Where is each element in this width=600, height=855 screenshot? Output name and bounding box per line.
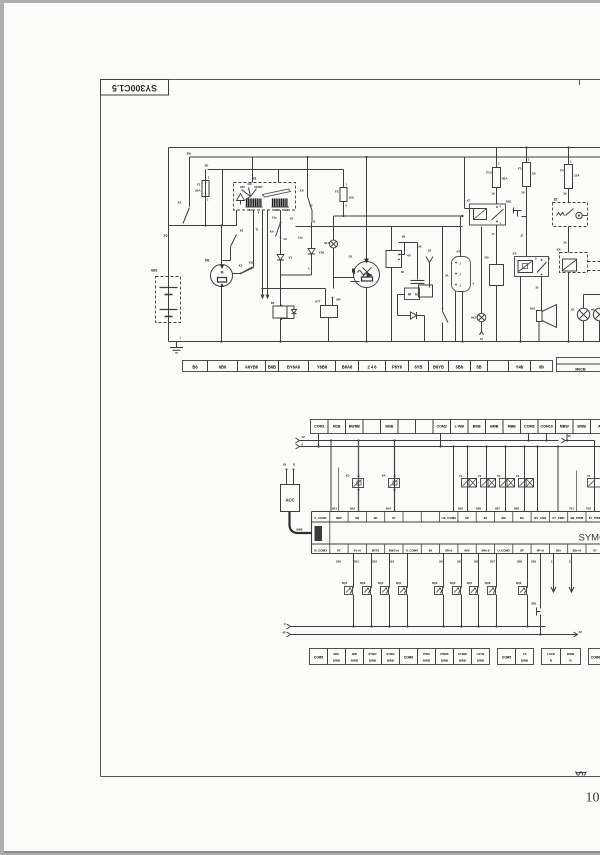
lamp HL2 with ground arrow <box>471 227 486 342</box>
controller connector cell <box>315 522 330 544</box>
ignition switch S1 dashed box <box>234 177 296 211</box>
svg-text:606: 606 <box>476 506 481 510</box>
resistor R1 with bypass diode <box>271 301 297 342</box>
svg-text:YX: YX <box>522 652 526 656</box>
svg-text:BY6A6: BY6A6 <box>287 365 301 370</box>
svg-text:20A: 20A <box>195 189 201 193</box>
wire 3b <box>563 227 568 253</box>
svg-text:601: 601 <box>332 506 337 510</box>
svg-text:604: 604 <box>386 506 391 510</box>
svg-text:T1: T1 <box>255 228 259 232</box>
pressure switch SQ5 <box>432 554 445 628</box>
bus 42 bottom <box>282 630 582 637</box>
drawing frame border <box>101 80 600 777</box>
svg-text:9b: 9b <box>539 365 544 370</box>
svg-text:PW6: PW6 <box>423 652 430 656</box>
title block SY300C1.5 (rotated 180) <box>101 80 169 96</box>
svg-text:6S: 6S <box>484 516 488 520</box>
S1 pin labels <box>249 208 289 215</box>
svg-text:BWB: BWB <box>441 659 449 663</box>
regulator box 63 <box>386 227 418 342</box>
wire V1-V1B junction <box>281 274 312 276</box>
svg-text:BW: BW <box>352 652 357 656</box>
svg-text:SB1: SB1 <box>506 200 512 204</box>
bus 0 lower <box>296 443 600 450</box>
svg-text:6B_PWM: 6B_PWM <box>570 516 583 520</box>
svg-text:OFF: OFF <box>240 185 246 189</box>
svg-text:B6A6: B6A6 <box>342 365 353 370</box>
svg-text:F_COM1: F_COM1 <box>315 516 328 520</box>
svg-text:29: 29 <box>283 463 287 467</box>
alternator D1 <box>349 157 380 342</box>
svg-text:6YBB: 6YBB <box>386 652 395 656</box>
svg-text:42: 42 <box>282 631 286 635</box>
wire left rail <box>168 148 170 342</box>
svg-text:ON: ON <box>248 182 252 186</box>
svg-text:S2: S2 <box>554 198 558 202</box>
pressure switch SQ4 <box>396 554 409 628</box>
svg-text:F3: F3 <box>518 167 522 171</box>
svg-text:F13: F13 <box>486 171 492 175</box>
svg-text:SQ6: SQ6 <box>450 581 456 585</box>
fuse F4 15A <box>560 148 580 203</box>
svg-text:Y3: Y3 <box>497 474 501 478</box>
svg-text:BWB: BWB <box>423 659 431 663</box>
svg-text:608: 608 <box>514 506 519 510</box>
svg-text:6Br+9: 6Br+9 <box>573 549 582 553</box>
svg-text:SQ2: SQ2 <box>360 581 366 585</box>
svg-text:2 4 6: 2 4 6 <box>367 365 377 370</box>
svg-text:6R7S: 6R7S <box>372 549 380 553</box>
svg-text:3b: 3b <box>563 241 566 245</box>
diode V2 <box>398 312 425 342</box>
controller box SYMC <box>312 512 600 554</box>
svg-text:B: B <box>293 463 295 467</box>
arrow terminal 11 <box>551 554 556 593</box>
wire 22 drop <box>222 170 224 226</box>
svg-text:701: 701 <box>569 506 574 510</box>
pressure switch SQ3 <box>378 554 391 628</box>
wire S1 top feed <box>253 157 279 183</box>
terminal strip lower-top <box>311 420 600 434</box>
controller bottom row labels <box>314 549 597 553</box>
svg-text:6YB: 6YB <box>415 365 423 370</box>
svg-text:6W+9: 6W+9 <box>481 549 489 553</box>
svg-text:COM10: COM10 <box>541 425 553 429</box>
wire K line <box>262 288 326 290</box>
svg-text:K7T: K7T <box>315 300 321 304</box>
svg-text:K3: K3 <box>346 474 350 478</box>
svg-text:SQ9: SQ9 <box>516 581 522 585</box>
svg-text:GB1: GB1 <box>151 269 158 273</box>
svg-text:K5: K5 <box>513 252 517 256</box>
svg-text:F4: F4 <box>560 169 564 173</box>
svg-text:SQ7: SQ7 <box>467 581 473 585</box>
pressure switch SQ2 <box>360 554 373 628</box>
svg-text:6WS+9: 6WS+9 <box>389 549 399 553</box>
terminal strip wide cell <box>557 358 600 372</box>
svg-text:COM1: COM1 <box>314 425 324 429</box>
svg-text:Y2: Y2 <box>478 474 482 478</box>
svg-text:BWB: BWB <box>351 659 359 663</box>
wire column 453 <box>452 445 454 511</box>
svg-text:K6: K6 <box>557 248 561 252</box>
fuse F1 20A <box>195 170 210 227</box>
ground symbol <box>170 336 183 353</box>
wire bus B 2M <box>187 152 600 159</box>
svg-text:5B: 5B <box>476 365 481 370</box>
pressure switch SQ1 <box>342 554 355 628</box>
svg-text:F1: F1 <box>197 183 201 187</box>
svg-text:M6CB: M6CB <box>575 367 586 371</box>
svg-text:B_COM3: B_COM3 <box>314 549 327 553</box>
svg-text:6B6: 6B6 <box>219 365 227 370</box>
svg-text:Y5: Y5 <box>587 474 591 478</box>
wire bus A (top) <box>169 146 600 148</box>
svg-text:COM5: COM5 <box>502 656 511 660</box>
connector K7 (round) <box>445 216 474 342</box>
svg-text:6R+9: 6R+9 <box>445 549 453 553</box>
switch K2 K1B <box>233 261 255 275</box>
pressure switch SQ9 <box>516 554 529 628</box>
svg-text:K9: K9 <box>270 230 274 234</box>
svg-text:HA1: HA1 <box>530 307 536 311</box>
relay K5 <box>513 252 551 277</box>
svg-text:26: 26 <box>522 191 525 195</box>
svg-text:V1B: V1B <box>319 251 326 255</box>
svg-text:COM6: COM6 <box>591 656 600 660</box>
lamp H2 <box>591 308 600 342</box>
svg-text:5d: 5d <box>284 237 287 241</box>
svg-text:31: 31 <box>521 234 524 238</box>
svg-text:START: START <box>254 185 263 189</box>
pressure switch SQ8 <box>485 554 498 628</box>
svg-text:6Y: 6Y <box>392 516 396 520</box>
svg-text:COM6: COM6 <box>404 656 413 660</box>
svg-text:L-WB: L-WB <box>455 425 465 429</box>
terminal strip lower-bottom seg D <box>589 649 600 665</box>
svg-text:SQ3: SQ3 <box>378 581 384 585</box>
svg-text:L6YB: L6YB <box>547 652 556 656</box>
svg-text:6_COM4: 6_COM4 <box>406 549 418 553</box>
svg-text:HL2: HL2 <box>471 316 477 320</box>
svg-text:5Bb: 5Bb <box>456 365 464 370</box>
svg-text:BRB: BRB <box>473 425 481 429</box>
svg-text:BV_CM1: BV_CM1 <box>534 516 547 520</box>
svg-text:32: 32 <box>536 286 539 290</box>
controller top row labels <box>315 516 600 520</box>
svg-text:702: 702 <box>586 506 591 510</box>
svg-text:BWB: BWB <box>369 659 377 663</box>
svg-text:6G: 6G <box>520 516 525 520</box>
harness thick wire <box>290 512 312 534</box>
svg-text:6P: 6P <box>465 516 469 520</box>
svg-text:COM5: COM5 <box>314 656 323 660</box>
svg-text:10: 10 <box>586 791 600 806</box>
svg-text:F2: F2 <box>335 190 339 194</box>
switch K3 upper <box>223 229 244 261</box>
svg-text:L6YB: L6YB <box>477 652 486 656</box>
svg-text:208: 208 <box>517 559 522 563</box>
svg-text:M1: M1 <box>205 259 210 263</box>
svg-text:202: 202 <box>372 559 377 563</box>
push button SB9 <box>531 554 541 636</box>
svg-text:BNB: BNB <box>385 425 393 429</box>
svg-text:D1: D1 <box>349 255 353 259</box>
svg-text:207: 207 <box>490 559 495 563</box>
svg-text:65: 65 <box>401 270 405 274</box>
svg-text:2b: 2b <box>563 192 566 196</box>
svg-text:SYMCB: SYMCB <box>579 533 600 544</box>
svg-text:Y1: Y1 <box>459 474 463 478</box>
svg-text:42: 42 <box>568 434 572 438</box>
wire 17 <box>492 225 497 265</box>
wire to pin 601 <box>330 439 339 511</box>
svg-text:6P+9: 6P+9 <box>537 549 544 553</box>
fuse F13 80A <box>486 148 508 205</box>
svg-text:209: 209 <box>531 559 536 563</box>
S1 contact comb right <box>272 199 290 208</box>
svg-text:K8: K8 <box>300 189 304 193</box>
svg-text:ACC: ACC <box>285 498 294 503</box>
svg-text:10A: 10A <box>349 196 355 200</box>
diode V1 <box>277 210 293 306</box>
svg-text:602: 602 <box>350 506 355 510</box>
wire column 537 <box>536 445 538 511</box>
svg-text:M: M <box>221 271 224 275</box>
svg-text:BWB: BWB <box>477 659 485 663</box>
svg-text:42: 42 <box>302 435 306 439</box>
svg-text:V1: V1 <box>289 256 293 260</box>
svg-text:6P: 6P <box>520 549 524 553</box>
relay coil K4 <box>382 439 400 511</box>
svg-text:SQ1: SQ1 <box>342 581 348 585</box>
battery GB1 <box>151 269 181 323</box>
capacitor C <box>411 243 433 298</box>
svg-text:K2: K2 <box>290 217 294 221</box>
svg-text:6YBR: 6YBR <box>368 652 377 656</box>
svg-text:R0: R0 <box>485 256 489 260</box>
solenoid valve Y3 <box>497 445 515 511</box>
svg-text:605: 605 <box>458 506 463 510</box>
svg-text:A6YB6: A6YB6 <box>245 365 259 370</box>
relay K7A <box>465 157 506 225</box>
svg-text:M6L: M6L <box>334 652 340 656</box>
svg-text:Y4b: Y4b <box>516 365 524 370</box>
top fold mark <box>579 80 581 86</box>
svg-text:COM2: COM2 <box>437 425 447 429</box>
svg-text:B: B <box>314 220 316 224</box>
svg-text:BWB: BWB <box>577 425 586 429</box>
solenoid valve Y4 <box>516 445 534 511</box>
svg-text:K2: K2 <box>239 264 243 268</box>
indicator lamp HL3 <box>324 216 353 289</box>
svg-text:66: 66 <box>419 245 422 249</box>
switch K9 <box>255 216 287 242</box>
terminal strip lower-bottom seg C <box>542 649 581 665</box>
svg-text:66V: 66V <box>464 549 469 553</box>
svg-text:M4: M4 <box>337 298 341 302</box>
wire M1 feed <box>169 224 237 264</box>
svg-text:BWB: BWB <box>521 659 529 663</box>
svg-text:Y6B6: Y6B6 <box>317 365 328 370</box>
svg-text:US_COM3: US_COM3 <box>441 516 456 520</box>
terminal strip lower-bottom seg B <box>498 649 534 665</box>
switch K10 <box>442 227 448 342</box>
svg-text:SQ4: SQ4 <box>396 581 402 585</box>
flasher relay S2 dashed <box>553 198 588 227</box>
svg-text:PW66: PW66 <box>440 652 449 656</box>
svg-text:K1: K1 <box>178 201 182 205</box>
svg-text:6M: 6M <box>502 516 507 520</box>
svg-text:U_COM5: U_COM5 <box>497 549 510 553</box>
antenna node 22 <box>426 249 433 288</box>
wire S1 drops <box>237 210 254 274</box>
svg-text:17: 17 <box>492 232 495 236</box>
svg-text:64: 64 <box>408 254 412 258</box>
relay contact K7T <box>315 289 341 342</box>
solenoid valve Y5 <box>587 441 600 512</box>
svg-text:K3: K3 <box>240 229 244 233</box>
svg-text:BMB: BMB <box>490 425 499 429</box>
svg-text:SQ8: SQ8 <box>485 581 491 585</box>
svg-text:2Q: 2Q <box>163 234 168 238</box>
svg-text:BWB: BWB <box>387 659 395 663</box>
arrow terminal 13 <box>569 554 574 593</box>
svg-text:H1: H1 <box>571 308 575 312</box>
pressure switch SQ6 <box>450 554 463 628</box>
svg-text:13a: 13a <box>272 216 277 220</box>
fuse F3 5A <box>518 148 537 208</box>
svg-text:M2B: M2B <box>333 425 341 429</box>
svg-text:HL3: HL3 <box>324 241 330 245</box>
svg-text:6A: 6A <box>445 274 448 278</box>
svg-text:607: 607 <box>495 506 500 510</box>
svg-text:S1: S1 <box>252 177 256 181</box>
svg-text:R1: R1 <box>271 301 275 305</box>
wire 32 to horn <box>521 277 542 342</box>
svg-text:15A: 15A <box>574 174 580 178</box>
svg-text:6Y: 6Y <box>593 549 597 553</box>
horn HA1 <box>530 305 557 342</box>
svg-text:M4: M4 <box>275 208 279 212</box>
relay K6 dashed <box>557 248 600 342</box>
bus 42 lower <box>296 434 595 443</box>
push button SB1 <box>506 200 527 223</box>
starter motor M1 <box>205 259 232 342</box>
svg-text:Y4: Y4 <box>516 474 520 478</box>
svg-text:SB1: SB1 <box>531 602 537 606</box>
fuse F2 10A <box>335 170 355 217</box>
svg-text:6Y_PWM: 6Y_PWM <box>589 516 600 520</box>
svg-text:MBB: MBB <box>508 425 517 429</box>
strip stubs <box>317 434 568 448</box>
svg-text:MBW: MBW <box>560 425 570 429</box>
svg-text:63: 63 <box>402 235 406 239</box>
svg-text:BWB: BWB <box>333 659 341 663</box>
svg-text:6W6: 6W6 <box>296 528 303 532</box>
svg-text:B6YB: B6YB <box>433 365 444 370</box>
svg-text:6YBW: 6YBW <box>458 652 467 656</box>
svg-text:K4: K4 <box>382 474 386 478</box>
wire column 573 pin 701 <box>576 471 578 512</box>
svg-text:6Y_CMD: 6Y_CMD <box>552 516 565 520</box>
terminal strip upper <box>183 361 553 372</box>
lamp H1 <box>571 295 600 342</box>
svg-text:6Y+9: 6Y+9 <box>354 549 361 553</box>
svg-text:2M: 2M <box>187 152 192 156</box>
svg-text:BWB: BWB <box>459 659 467 663</box>
bus 0 bottom <box>284 622 546 629</box>
solenoid valve Y2 <box>478 445 496 511</box>
svg-text:6Br: 6Br <box>556 549 562 553</box>
svg-text:80A: 80A <box>502 177 508 181</box>
solenoid valve Y1 <box>459 445 477 511</box>
svg-text:B4: B4 <box>285 208 289 212</box>
pressure switch SQ7 <box>467 554 480 628</box>
switch K8 <box>290 157 315 224</box>
wire column 555 <box>557 445 559 511</box>
svg-text:SQ5: SQ5 <box>432 581 438 585</box>
svg-text:15a: 15a <box>298 236 303 240</box>
svg-text:K7: K7 <box>467 199 471 203</box>
svg-text:PC: PC <box>415 293 419 297</box>
bottom fold mark xtz <box>576 772 587 776</box>
relay coil K3 <box>346 439 364 511</box>
svg-text:6BV: 6BV <box>336 516 342 520</box>
svg-text:6Y: 6Y <box>337 549 341 553</box>
svg-text:1b: 1b <box>491 192 494 196</box>
switch K1 <box>178 201 190 224</box>
svg-text:201: 201 <box>354 559 359 563</box>
svg-text:BWB: BWB <box>567 652 575 656</box>
svg-text:M: M <box>408 293 411 297</box>
wire arrow terminals <box>261 210 269 298</box>
wire distribution mid <box>296 226 463 228</box>
svg-text:69: 69 <box>429 549 433 553</box>
svg-text:B6B: B6B <box>268 365 276 370</box>
wire 31 <box>521 223 527 257</box>
wire 2D <box>205 164 344 170</box>
bottom bus upper schematic <box>169 340 600 342</box>
svg-text:COM9: COM9 <box>524 425 534 429</box>
connector box small <box>398 288 420 316</box>
terminal strip lower-bottom <box>310 649 490 665</box>
svg-text:200: 200 <box>336 559 341 563</box>
svg-text:BWNB: BWNB <box>349 425 361 429</box>
wire 2Q label <box>163 234 168 238</box>
svg-text:P6Y6: P6Y6 <box>392 365 403 370</box>
resistor R0 <box>485 256 504 342</box>
svg-text:42: 42 <box>579 630 583 634</box>
diode V1B <box>298 223 325 276</box>
wire distribution G <box>334 215 464 217</box>
S1 contact comb left <box>246 199 263 208</box>
svg-text:22: 22 <box>428 249 432 253</box>
svg-text:B6: B6 <box>192 365 198 370</box>
diagnostic module <box>281 463 300 512</box>
wire K1 branch <box>189 157 191 207</box>
svg-text:SY300C1.5: SY300C1.5 <box>112 83 157 93</box>
